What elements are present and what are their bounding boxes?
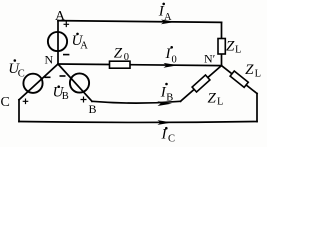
svg-text:Z: Z (114, 46, 123, 62)
wire: phase B horizontal (92, 101, 181, 103)
label UB (phasor U dot B) (53, 84, 69, 101)
arrow current iB (158, 101, 173, 106)
wire: C vertical down (18, 100, 20, 122)
wire: right vertical into ZL(A) (221, 22, 223, 38)
svg-text:Z: Z (208, 91, 217, 107)
wire: Z0 to N' (130, 64, 222, 67)
label ZL phase B (208, 91, 224, 108)
svg-text:B: B (89, 102, 97, 116)
arrow current iA (161, 20, 176, 25)
arrow current i0 (164, 63, 179, 68)
label Z0 (114, 46, 129, 64)
svg-text:I: I (165, 46, 172, 62)
wire: bottom phase C horizontal (19, 121, 257, 124)
svg-text:C: C (168, 134, 175, 145)
svg-text:L: L (255, 69, 261, 80)
svg-text:N′: N′ (204, 52, 216, 66)
wire: phase A vertical through source (57, 21, 59, 64)
svg-text:C: C (18, 68, 25, 79)
label current i0 (165, 46, 177, 66)
svg-text:Z: Z (226, 38, 235, 54)
wire: diagonal N to C through source UC (19, 64, 58, 100)
wire: right vertical up from bottom (256, 94, 258, 122)
wire: diagonal ZL(C) to N' (222, 66, 258, 94)
svg-text:B: B (62, 91, 69, 102)
label ZL phase C (245, 62, 261, 80)
label current iA (158, 3, 172, 24)
label UA (phasor U dot A) (72, 33, 89, 52)
svg-text:L: L (235, 45, 241, 56)
svg-text:0: 0 (172, 55, 177, 66)
minus of UA (63, 54, 69, 56)
svg-text:A: A (80, 40, 88, 51)
wire: ZL(A) bottom to node N' (221, 54, 223, 66)
minus of UB (60, 75, 66, 77)
plus of UB (81, 97, 87, 103)
svg-text:A: A (164, 12, 172, 23)
svg-text:C: C (1, 95, 10, 110)
wire: diagonal N to B through source UB (58, 64, 92, 101)
svg-text:B: B (166, 92, 173, 103)
impedance Z0 box (110, 61, 131, 68)
source UC circle (23, 74, 42, 93)
source UB circle (70, 73, 89, 92)
minus of UC (45, 76, 51, 78)
impedance ZL phase B box (rotated) (192, 75, 210, 92)
svg-text:Z: Z (245, 62, 254, 78)
impedance ZL phase C box (rotated) (230, 71, 248, 87)
arrow current iC (158, 120, 173, 125)
impedance ZL phase A box (218, 39, 225, 55)
label UC (phasor U dot C) (8, 59, 25, 79)
svg-text:L: L (217, 97, 223, 108)
svg-text:0: 0 (124, 52, 129, 63)
label current iB (160, 83, 174, 104)
label ZL phase A (226, 38, 241, 55)
label current iC (161, 126, 176, 144)
wire: neutral N to Z0 (58, 63, 110, 66)
source UA circle (48, 32, 67, 51)
plus of UC (23, 99, 29, 105)
svg-text:N: N (45, 53, 54, 67)
plus of UA (64, 22, 70, 28)
wire: diagonal B wire up to N' through ZL(B) (181, 66, 222, 102)
wire: top phase A horizontal (58, 21, 222, 23)
svg-text:A: A (55, 9, 66, 24)
